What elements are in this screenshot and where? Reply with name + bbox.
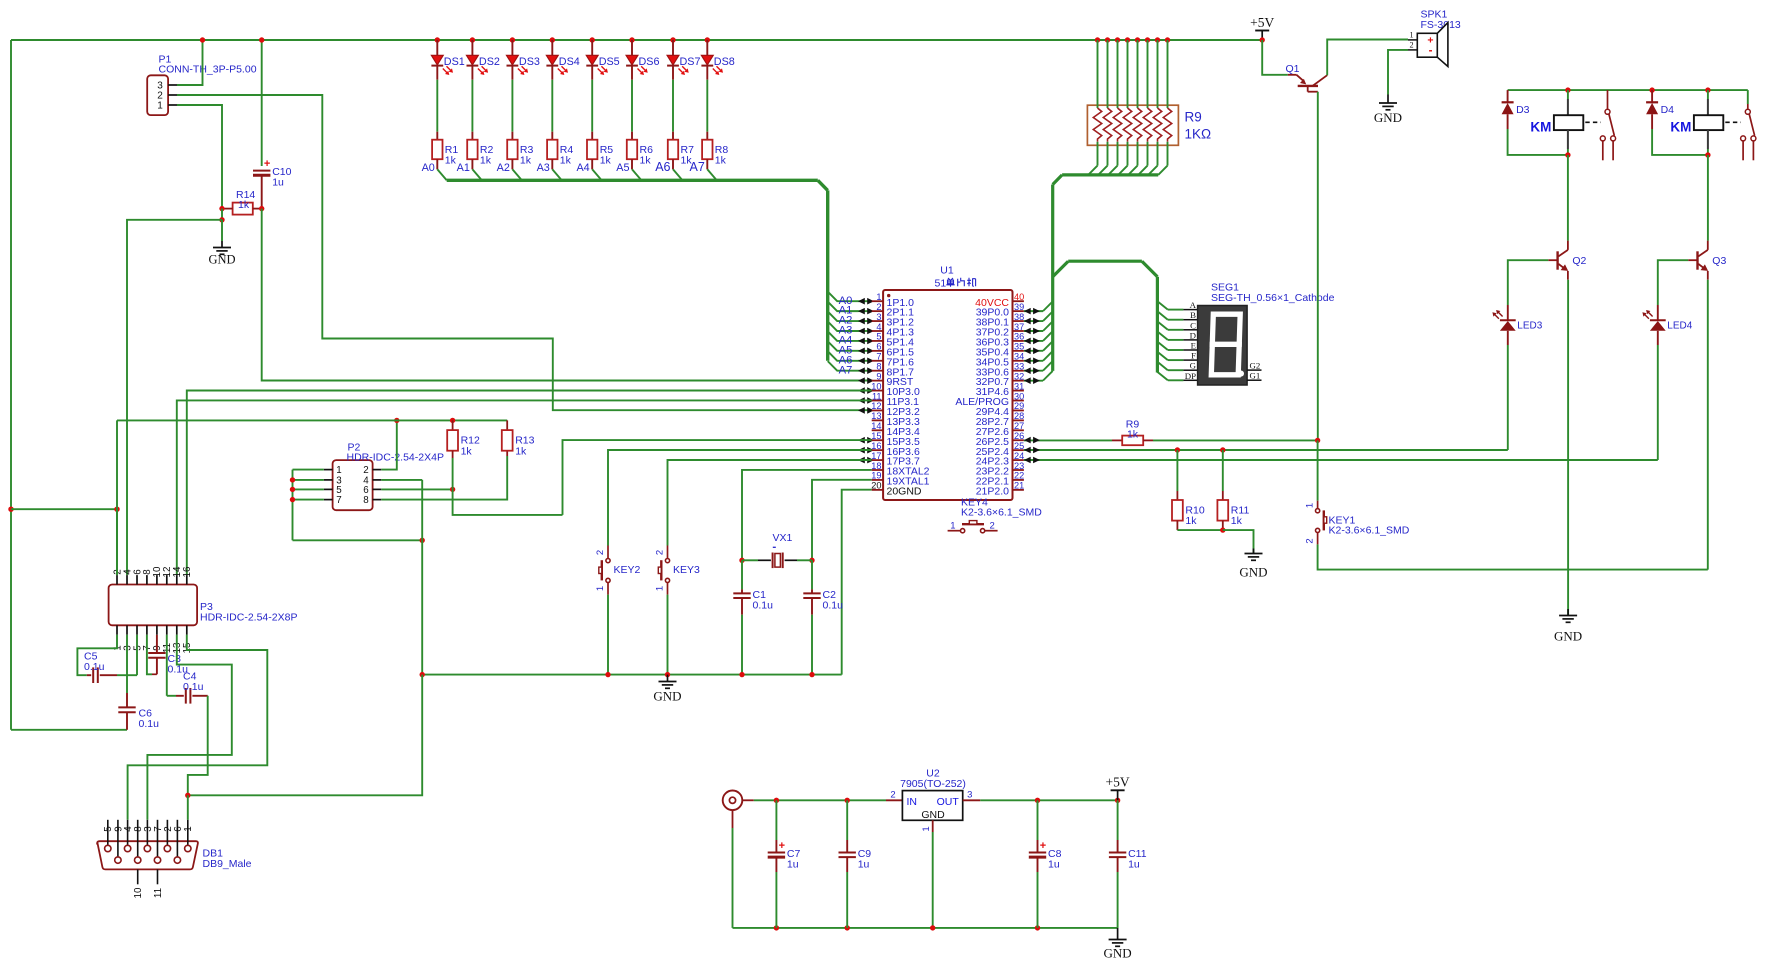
junction relay coil bottom: [1565, 152, 1570, 157]
svg-text:G1: G1: [1250, 370, 1261, 380]
junction C7 top: [774, 798, 779, 803]
svg-text:GND: GND: [208, 253, 235, 267]
resistor R5 1k: [587, 140, 597, 160]
svg-text:Q3: Q3: [1712, 255, 1726, 267]
bus A bevel: [818, 180, 828, 190]
wire LED4 to pin24 line: [1657, 345, 1659, 460]
wire Q1 base down to R9-KEY1 node: [1317, 92, 1319, 441]
wire U1 pin37 P0.2 to bus: [1024, 330, 1043, 332]
U2 IN stub pin2: [886, 799, 902, 801]
wire KM1 to Q2 collector: [1567, 155, 1569, 241]
U1 pin 20 stub and number: [872, 489, 883, 491]
svg-text:A2: A2: [497, 162, 510, 174]
junction DB1 pin1 node: [185, 793, 190, 798]
wire bus to SEG1 pin D: [1157, 332, 1167, 340]
svg-text:37: 37: [1014, 322, 1024, 332]
U1 pin 15 stub and number: [872, 439, 883, 441]
U1 pin 11 stub and number: [872, 400, 883, 402]
junction relay rail: [1705, 87, 1710, 92]
SEG1 pin E stub: [1183, 349, 1197, 351]
wire SPK1 pin2 to GND: [1388, 50, 1408, 95]
display SEG1 body: [1198, 306, 1248, 386]
LED DS4: [550, 37, 555, 42]
ground GND at Q2: [1567, 609, 1569, 616]
header P3 HDR-IDC-2.54-2X8P: [109, 585, 198, 626]
wire bus to SEG1 pin G: [1157, 362, 1167, 370]
R9 element 4 zigzag: [1123, 108, 1131, 142]
P3 pin 8 stub top: [146, 575, 148, 584]
svg-text:1k: 1k: [520, 155, 532, 167]
svg-text:30: 30: [1014, 391, 1024, 401]
svg-text:26: 26: [1014, 431, 1024, 441]
R9 element 3 bottom lead: [1117, 142, 1119, 166]
U1 pin 28 stub and number: [1013, 419, 1024, 421]
svg-text:1k: 1k: [480, 155, 492, 167]
svg-text:GND: GND: [1554, 629, 1582, 644]
capacitor C8 1u: [1037, 800, 1039, 840]
svg-text:0.1u: 0.1u: [183, 681, 204, 693]
SEG1 pin G stub: [1183, 369, 1197, 371]
R9 element 2 bottom lead: [1107, 142, 1109, 166]
arrow U1 pin17: [858, 457, 865, 464]
svg-text:1u: 1u: [1048, 859, 1060, 871]
DB1 pin 10 stub: [137, 869, 139, 884]
IC U1 51 MCU 40-pin: [883, 290, 1012, 500]
svg-text:A7: A7: [690, 160, 705, 174]
LED DS3: [510, 37, 515, 42]
svg-text:SEG-TH_0.56×1_Cathode: SEG-TH_0.56×1_Cathode: [1211, 292, 1335, 304]
relay KM coil: [1567, 90, 1569, 99]
wire Q3 base to LED4: [1658, 260, 1688, 305]
svg-text:HDR-IDC-2.54-2X4P: HDR-IDC-2.54-2X4P: [347, 451, 444, 463]
svg-text:VX1: VX1: [773, 532, 793, 544]
svg-text:Q1: Q1: [1286, 63, 1300, 75]
transistor Q3 NPN: [1707, 241, 1709, 250]
wire x117 vertical R12-line to P3 pin2: [116, 420, 118, 575]
wire bus to U1 pin5 A4: [828, 331, 858, 341]
relay contact dashed link: [1725, 121, 1741, 123]
bus P0 top bevel: [1053, 175, 1062, 185]
svg-text:1u: 1u: [272, 177, 284, 189]
svg-text:7: 7: [336, 495, 341, 506]
svg-text:A0: A0: [422, 162, 435, 174]
relay KM coil: [1707, 90, 1709, 99]
U1 pin 22 stub and number: [1013, 479, 1024, 481]
svg-text:32: 32: [1014, 371, 1024, 381]
U1 pin 14 stub and number: [872, 429, 883, 431]
U1 pin 9 stub and number: [872, 380, 883, 382]
svg-text:+5V: +5V: [1250, 15, 1274, 30]
svg-text:36: 36: [1014, 332, 1024, 342]
junction R14 right C10: [259, 206, 264, 211]
wire +5V to Q1 emitter: [1262, 40, 1288, 75]
DB1 pin 4: [127, 820, 129, 846]
wire P2 pin6 to R12 bottom: [381, 488, 452, 490]
svg-text:2: 2: [876, 302, 881, 312]
P3 pin 11 stub bottom: [166, 625, 168, 635]
svg-text:17: 17: [871, 451, 881, 461]
wire bus to U1 pin8 A7: [828, 361, 858, 371]
relay contact dashed link: [1585, 121, 1601, 123]
wire P3 pin2 up: [116, 509, 118, 575]
capacitor C7 1u: [775, 800, 777, 840]
resistor R10 1k: [1176, 450, 1178, 491]
wire bus to U1 pin7 A6: [828, 351, 858, 361]
resistor network R9 1Kohm: [1087, 105, 1178, 145]
svg-text:2: 2: [990, 521, 995, 532]
R9 element 7 bottom lead: [1157, 142, 1159, 166]
junction relay coil bottom: [1705, 152, 1710, 157]
P3 pin 5 stub bottom: [136, 625, 138, 635]
junction R11 top: [1220, 447, 1225, 452]
P3 pin 14 stub top: [176, 575, 178, 584]
U1 pin 7 stub and number: [872, 360, 883, 362]
wire bus to SEG1 pin C: [1157, 321, 1167, 329]
switch KEY2: [607, 546, 609, 559]
bus A vertical: [826, 190, 829, 360]
svg-text:F: F: [1191, 351, 1196, 361]
R9 element 6 lead: [1145, 37, 1150, 42]
resistor R4 1k: [547, 140, 557, 160]
R9 element 3 zigzag: [1113, 108, 1121, 142]
svg-text:19: 19: [871, 471, 881, 481]
svg-text:DS3: DS3: [519, 56, 540, 68]
wire GND branch to P3 pin4: [127, 220, 222, 575]
R9 element 6 bottom lead: [1147, 142, 1149, 166]
wire R14 left to GND branch: [221, 209, 223, 220]
junction R12 line pin2: [394, 418, 399, 423]
junction bottom rail: [1035, 925, 1040, 930]
transistor Q1 PNP: [1288, 74, 1297, 76]
SEG1 pin DP stub: [1183, 379, 1197, 381]
resistor R14 1k: [233, 203, 253, 215]
junction relay rail: [1565, 87, 1570, 92]
U1 pin 6 stub and number: [872, 350, 883, 352]
connector P1 CONN-TH_3P-P5.00: [147, 75, 168, 115]
junction x117 y509: [114, 507, 119, 512]
P3 pin 4 stub top: [126, 575, 128, 584]
wire KEY1 pin2 to Q3 emitter: [1318, 544, 1708, 569]
wire bus to SEG1 pin A: [1157, 301, 1167, 309]
wire bus to SEG1 pin B: [1157, 311, 1167, 319]
LED LED4: [1657, 305, 1659, 320]
junction bottom rail: [930, 925, 935, 930]
bus A0-A7 horizontal: [447, 179, 818, 182]
svg-text:6: 6: [173, 826, 184, 832]
U1 pin 30 stub and number: [1013, 400, 1024, 402]
wire KEY2 to GND line: [607, 595, 609, 675]
wire Q2 base to LED3: [1508, 260, 1549, 305]
U1 pin 4 stub and number: [872, 330, 883, 332]
wire bus to SEG1 pin F: [1157, 352, 1167, 360]
wire bus to U1 pin4 A3: [828, 321, 858, 331]
svg-text:CONN-TH_3P-P5.00: CONN-TH_3P-P5.00: [159, 64, 257, 76]
wire RC node to U1 pin9 RST: [262, 209, 872, 381]
wire U1 pin24 P2.3 to LED4: [1024, 459, 1658, 461]
wire port sleeve down: [732, 810, 734, 828]
resistor R8 1k: [702, 140, 712, 160]
wire DS6 to R6: [631, 80, 633, 132]
svg-text:22: 22: [1014, 471, 1024, 481]
R9 element 5 zigzag: [1133, 108, 1141, 142]
U1 pin 3 stub and number: [872, 320, 883, 322]
DB1 pin 2: [166, 820, 168, 846]
svg-text:A5: A5: [616, 162, 629, 174]
svg-text:0.1u: 0.1u: [823, 599, 844, 611]
svg-text:D3: D3: [1516, 104, 1530, 116]
DB1 pin 9: [117, 820, 119, 857]
wire P1 pin3 to +5V rail: [177, 40, 203, 85]
wire R10/R11 bottoms to GND: [1177, 529, 1222, 531]
svg-text:1: 1: [921, 826, 932, 831]
junction P1 pin3 at rail: [200, 37, 205, 42]
U1 pin 39 stub and number: [1013, 310, 1024, 312]
wire P2 common to GND net: [293, 539, 423, 541]
svg-text:0.1u: 0.1u: [753, 599, 774, 611]
wire U1 pin17 to KEY3: [668, 460, 872, 546]
wire P1 pin2 to U1 pin12: [177, 95, 872, 410]
U1 pin 29 stub and number: [1013, 409, 1024, 411]
svg-text:27: 27: [1014, 421, 1024, 431]
wire U1 pin39 P0.0 to bus: [1024, 310, 1043, 312]
svg-text:DS2: DS2: [479, 56, 500, 68]
R9 element 5 lead: [1135, 37, 1140, 42]
junction VX1 right: [809, 558, 814, 563]
arrow U1 pin11: [858, 397, 865, 404]
SEG1 digit 8: [1211, 314, 1240, 375]
junction GND branch: [219, 217, 224, 222]
R9 element 8 lead: [1165, 37, 1170, 42]
LED DS8: [705, 37, 710, 42]
wire C1 to GND line: [741, 615, 743, 675]
svg-text:1k: 1k: [515, 445, 527, 457]
svg-text:D4: D4: [1661, 104, 1675, 116]
svg-text:2: 2: [1409, 41, 1413, 50]
svg-text:KM: KM: [1530, 119, 1551, 134]
wire DS8 to R8: [706, 80, 708, 132]
junction GND line: [665, 672, 670, 677]
P2 pin 6 stub: [373, 488, 382, 490]
svg-text:1u: 1u: [1128, 859, 1140, 871]
wire DS7 to R7: [672, 80, 674, 132]
U1 pin1 marker dot: [887, 294, 890, 297]
svg-text:GND: GND: [1239, 565, 1267, 580]
svg-text:1k: 1k: [1127, 429, 1139, 441]
svg-text:31: 31: [1014, 381, 1024, 391]
junction P2 odd pin: [290, 497, 295, 502]
U1 pin 2 stub and number: [872, 310, 883, 312]
relay switch contact: [1745, 109, 1750, 114]
wire bus to U1 pin1 A0: [828, 292, 858, 302]
svg-text:1KΩ: 1KΩ: [1185, 127, 1212, 142]
SEG1 pin C stub: [1183, 329, 1197, 331]
wire P3 pin13 to DB1 pin3: [147, 635, 231, 820]
junction R12 bottom: [450, 487, 455, 492]
svg-text:2: 2: [1305, 538, 1316, 543]
wire rail corner to switch2: [1747, 90, 1749, 104]
svg-text:A7: A7: [839, 364, 853, 376]
R9 element 7 zigzag: [1153, 108, 1161, 142]
U1 pin 18 stub and number: [872, 469, 883, 471]
svg-text:1k: 1k: [1185, 515, 1197, 527]
wire +5V top rail: [11, 39, 1262, 41]
svg-text:HDR-IDC-2.54-2X8P: HDR-IDC-2.54-2X8P: [200, 611, 297, 623]
switch KEY1 K2-3.6x6.1_SMD: [1317, 440, 1319, 500]
wire C5 right to P3 pin5: [117, 674, 137, 676]
svg-text:DS1: DS1: [444, 56, 465, 68]
SEG1 decimal point: [1238, 371, 1244, 377]
U1 pin 17 stub and number: [872, 459, 883, 461]
wire U1 pin20 GND: [842, 490, 872, 675]
svg-text:+: +: [779, 840, 785, 852]
wire U1 pin35 P0.4 to bus: [1024, 350, 1043, 352]
P3 pin 15 stub bottom: [186, 625, 188, 635]
svg-text:1k: 1k: [238, 199, 250, 211]
LED DS2: [470, 37, 475, 42]
resistor R13 1k: [506, 420, 508, 430]
svg-text:K2-3.6×6.1_SMD: K2-3.6×6.1_SMD: [1329, 525, 1410, 537]
svg-text:1: 1: [950, 521, 955, 532]
junction P2 net x422: [420, 538, 425, 543]
P3 pin 13 stub bottom: [176, 625, 178, 635]
diode D3: [1507, 90, 1509, 102]
wire P3 pin5 down: [136, 635, 138, 675]
wire bus to U1 pin3 A2: [828, 311, 858, 321]
R9 element 5 bottom lead: [1137, 142, 1139, 166]
SEG1 pin G1 stub: [1247, 379, 1261, 381]
svg-text:2: 2: [890, 789, 895, 800]
wire R1 to A-bus: [437, 169, 446, 180]
U1 pin 23 stub and number: [1013, 469, 1024, 471]
svg-text:KEY3: KEY3: [673, 564, 700, 576]
U1 pin 37 stub and number: [1013, 330, 1024, 332]
DB1 pin 11 stub: [157, 869, 159, 884]
svg-text:16: 16: [871, 441, 881, 451]
U1 pin 27 stub and number: [1013, 429, 1024, 431]
U1 pin 1 stub and number: [872, 300, 883, 302]
LED DS5: [590, 37, 595, 42]
P3 pin 9 stub bottom: [156, 625, 158, 635]
svg-text:18: 18: [871, 461, 881, 471]
wire Q3 emitter down: [1707, 280, 1709, 570]
SEG1 pin G2 stub: [1247, 369, 1261, 371]
SEG1 pin B stub: [1183, 319, 1197, 321]
capacitor C1 0.1u: [741, 560, 743, 589]
svg-text:1k: 1k: [1231, 515, 1243, 527]
wire DB1 pin1 drop: [187, 795, 189, 820]
svg-text:15: 15: [871, 431, 881, 441]
wire U1 pin34 P0.5 to bus: [1024, 360, 1043, 362]
wire U1 pin11 to P3 pin14: [177, 400, 872, 575]
wire U1 pin32 P0.7 to bus: [1024, 380, 1043, 382]
wire relay +5V rail: [1508, 89, 1748, 91]
ground GND at KEY3: [667, 675, 669, 682]
arrow U1 pin9: [858, 377, 865, 384]
resistor R9 1k series: [1112, 439, 1122, 441]
svg-text:3: 3: [967, 789, 972, 800]
power port P4 barrel: [723, 791, 743, 811]
capacitor C10 1u: [261, 40, 263, 166]
DB1 pin 3: [146, 820, 148, 846]
wire U1 pin18 XTAL2 to VX1 left: [742, 470, 872, 560]
svg-text:KM: KM: [1670, 119, 1691, 134]
R9 element 2 zigzag: [1103, 108, 1111, 142]
svg-text:GND: GND: [1104, 946, 1132, 959]
P2 pin 7 stub: [324, 499, 333, 501]
svg-text:10: 10: [133, 887, 144, 898]
junction +5V: [1260, 37, 1265, 42]
bus R9 bottom horizontal: [1062, 173, 1158, 176]
svg-text:A1: A1: [457, 162, 470, 174]
svg-text:38: 38: [1014, 312, 1024, 322]
header P2 HDR-IDC-2.54-2X4P: [333, 460, 373, 510]
U1 pin 40 stub and number: [1013, 300, 1024, 302]
svg-text:16: 16: [182, 566, 193, 577]
svg-text:1: 1: [183, 826, 194, 831]
wire DS5 to R5: [591, 80, 593, 132]
switch KEY4: [948, 530, 961, 532]
svg-text:24: 24: [1014, 451, 1024, 461]
svg-text:OUT: OUT: [937, 796, 960, 808]
svg-text:Q2: Q2: [1572, 255, 1586, 267]
svg-text:5: 5: [876, 332, 881, 342]
svg-text:+: +: [1040, 840, 1046, 852]
wire P1 pin1 to R14 left: [177, 105, 222, 209]
svg-text:40: 40: [1014, 292, 1024, 302]
svg-text:R9: R9: [1185, 110, 1202, 125]
DB1 pin 6: [176, 820, 178, 857]
U1 pin 13 stub and number: [872, 419, 883, 421]
svg-text:2: 2: [595, 550, 606, 555]
P3 pin 7 stub bottom: [146, 625, 148, 635]
U1 pin 26 stub and number: [1013, 439, 1024, 441]
svg-text:1: 1: [157, 101, 163, 112]
R9 element 1 bottom lead: [1097, 142, 1099, 166]
svg-text:DS6: DS6: [639, 56, 660, 68]
bus P0 vertical: [1051, 185, 1054, 371]
crystal VX1: [742, 559, 758, 561]
svg-text:E: E: [1191, 341, 1196, 351]
svg-text:0.1u: 0.1u: [139, 718, 160, 730]
R9 element 1 zigzag: [1093, 108, 1101, 142]
P3 pin 6 stub top: [136, 575, 138, 584]
wire U1 pin26 P2.5 to R9: [1024, 439, 1112, 441]
arrow U1 pin10: [858, 387, 865, 394]
resistor R1 1k: [432, 140, 442, 160]
wire port to U2 IN: [742, 799, 754, 801]
svg-text:A6: A6: [655, 160, 670, 174]
wire R6 to A-bus: [632, 169, 641, 180]
junction P2 odd pin: [290, 477, 295, 482]
svg-text:7: 7: [876, 352, 881, 362]
svg-text:DP: DP: [1185, 371, 1196, 381]
wire bottom rail U2 section: [733, 927, 1118, 929]
wire R12/R13 top line: [117, 419, 507, 421]
junction left edge y509: [8, 507, 13, 512]
U1 pin 16 stub and number: [872, 449, 883, 451]
P3 pin 10 stub top: [156, 575, 158, 584]
wire Q1 collector to SPK1 pin1: [1327, 40, 1408, 76]
svg-text:20GND: 20GND: [887, 485, 922, 497]
SEG1 pin F stub: [1183, 359, 1197, 361]
svg-text:LED4: LED4: [1667, 320, 1692, 331]
junction R9/KEY1/Q1: [1315, 438, 1320, 443]
junction R14 left: [219, 206, 224, 211]
svg-text:28: 28: [1014, 411, 1024, 421]
wire U1 pin19 XTAL1 to VX1 right: [812, 480, 872, 561]
resistor R3 1k: [507, 140, 517, 160]
U1 pin 24 stub and number: [1013, 459, 1024, 461]
